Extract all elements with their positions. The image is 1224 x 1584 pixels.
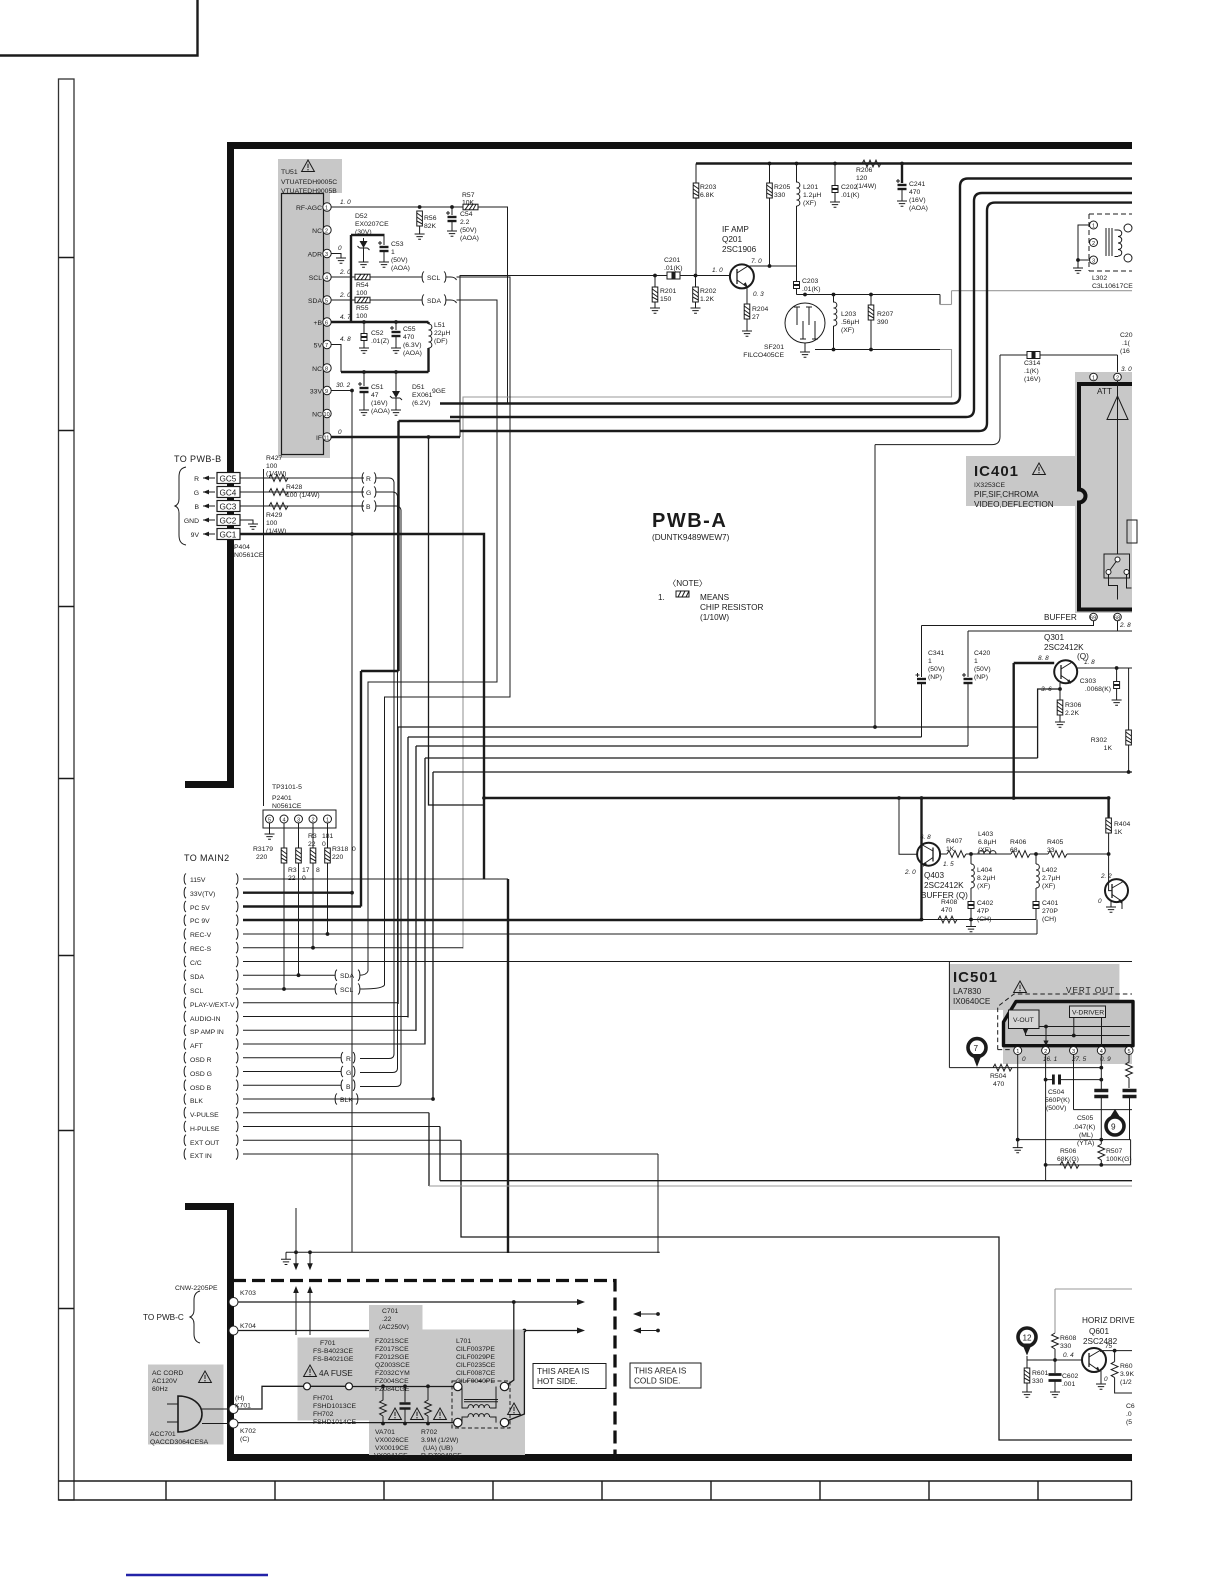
svg-text:IX0640CE: IX0640CE [953, 997, 991, 1006]
svg-text:OSD G: OSD G [190, 1071, 212, 1078]
barrier crossing arrows up [295, 1291, 297, 1335]
svg-text:(5: (5 [1126, 1419, 1132, 1426]
svg-text:9GE: 9GE [432, 388, 446, 395]
svg-text:R504: R504 [990, 1073, 1006, 1080]
midfield wire M4 [425, 758, 1038, 1045]
Q404 collector stub [1121, 901, 1123, 909]
svg-text:GC4: GC4 [220, 489, 237, 498]
connector GC2 [217, 515, 240, 526]
svg-text:1.2K: 1.2K [700, 296, 714, 303]
resistor R608 [1052, 1333, 1059, 1349]
svg-text:470: 470 [993, 1081, 1005, 1088]
svg-text:GC2: GC2 [220, 517, 237, 526]
svg-text:1. 0: 1. 0 [712, 267, 723, 274]
svg-text:R427: R427 [266, 455, 282, 462]
Q403 ground rail [922, 919, 1037, 921]
svg-text:V-PULSE: V-PULSE [190, 1112, 219, 1119]
svg-text:4: 4 [283, 818, 286, 824]
P2401 pin 4 [280, 815, 288, 823]
svg-text:R407: R407 [946, 838, 962, 845]
svg-text:270P: 270P [1042, 908, 1058, 915]
svg-text:220: 220 [332, 854, 344, 861]
svg-text:33V: 33V [310, 389, 323, 396]
resistor R3178 [298, 823, 300, 848]
svg-text:TO PWB-C: TO PWB-C [143, 1313, 184, 1322]
svg-text:2: 2 [325, 229, 328, 235]
warning VA701 [389, 1408, 402, 1420]
svg-text:4. 8: 4. 8 [340, 336, 351, 343]
svg-text:(XF): (XF) [1042, 883, 1055, 890]
svg-text:L201: L201 [803, 184, 818, 191]
IC401 pin 69 [1090, 613, 1098, 621]
transistor Q301 [1054, 660, 1077, 683]
svg-text:VIDEO,DEFLECTION: VIDEO,DEFLECTION [974, 500, 1054, 509]
svg-text:7: 7 [974, 1044, 979, 1053]
Q301 collector wire [1077, 667, 1132, 669]
resistor R702 [427, 1386, 429, 1400]
ruler tick marks [59, 258, 75, 1309]
svg-text:8: 8 [316, 867, 320, 874]
SDA jog wire from tuner [368, 300, 497, 971]
svg-text:2.7µH: 2.7µH [1042, 875, 1060, 882]
svg-text:75: 75 [1105, 1343, 1113, 1350]
capacitor C420 [967, 631, 969, 677]
deflection pulse line black [440, 1180, 1132, 1182]
AC cord gray block [148, 1365, 224, 1445]
svg-text:150: 150 [660, 296, 672, 303]
connector pin K702 [229, 1419, 238, 1428]
svg-text:R205: R205 [774, 184, 790, 191]
capacitor C55 [394, 320, 398, 324]
IC501 ground [1017, 1140, 1019, 1148]
svg-text:3: 3 [297, 818, 300, 824]
R504 rail [949, 1067, 1101, 1069]
tuner pin 10 NC [323, 409, 331, 417]
svg-text:HORIZ DRIVE: HORIZ DRIVE [1082, 1316, 1135, 1325]
svg-text:R3: R3 [288, 867, 297, 874]
svg-text:(NP): (NP) [974, 674, 988, 681]
svg-text:(C): (C) [240, 1436, 249, 1443]
north stub [295, 1208, 297, 1252]
svg-text:2. 0: 2. 0 [904, 869, 916, 876]
junction M1-SIF [873, 725, 877, 729]
transistor Q201 [730, 264, 754, 288]
wire buffer out right [1118, 630, 1133, 632]
resistor R3179 [283, 823, 285, 848]
svg-text:1: 1 [974, 658, 978, 665]
svg-text:G: G [346, 1070, 351, 1077]
svg-text:VX0019CE: VX0019CE [375, 1445, 409, 1452]
emitter branch to M4 [1038, 689, 1060, 758]
plug wires [202, 1409, 229, 1424]
wire 5V pin7 [331, 345, 341, 373]
svg-text:R57: R57 [462, 192, 475, 199]
wire EXT IN drop [657, 1154, 659, 1253]
svg-text:R207: R207 [877, 311, 893, 318]
svg-text:3: 3 [325, 252, 328, 258]
svg-text:1. 5: 1. 5 [943, 861, 954, 868]
svg-text:R306: R306 [1065, 702, 1081, 709]
midfield wire M3 [416, 746, 968, 1031]
connector brace [175, 467, 186, 545]
resistor R302 [1128, 668, 1130, 730]
supply rail top [696, 162, 1132, 164]
midfield wire M1 [398, 727, 1038, 1004]
capacitor C341 [921, 626, 923, 678]
svg-text:L403: L403 [978, 831, 993, 838]
svg-text:SF201: SF201 [764, 344, 784, 351]
Q403 emitter wire [940, 853, 947, 855]
svg-text:2.2: 2.2 [460, 219, 470, 226]
tuner pin 11 IF [323, 433, 331, 441]
thick border bottom [227, 1454, 1132, 1461]
warning T701 [508, 1403, 521, 1415]
svg-text:.01(Z): .01(Z) [371, 338, 389, 345]
Q601 base rail [1027, 1356, 1082, 1360]
resistor R3181 [327, 823, 329, 848]
svg-text:5: 5 [325, 299, 328, 305]
svg-text:NC: NC [312, 228, 322, 235]
svg-text:C602: C602 [1062, 1373, 1078, 1380]
buffer out rail [484, 797, 1108, 799]
svg-text:11: 11 [324, 436, 330, 442]
svg-text:6.8K: 6.8K [700, 192, 714, 199]
wire V-PULSE drop [428, 1113, 430, 1186]
svg-text:.1(: .1( [1122, 340, 1131, 347]
series node 2 [1030, 853, 1048, 855]
svg-text:2: 2 [1116, 376, 1119, 382]
svg-text:(1/4W): (1/4W) [856, 183, 876, 190]
wire ADR pin3 to ground [331, 254, 341, 259]
svg-text:(30V): (30V) [355, 229, 372, 236]
svg-text:47: 47 [371, 392, 379, 399]
svg-text:C52: C52 [371, 330, 384, 337]
svg-text:(16V): (16V) [909, 197, 926, 204]
wire GC2 ground [240, 520, 253, 524]
ground rail IC501 [1018, 1139, 1131, 1141]
svg-text:R60: R60 [1120, 1363, 1133, 1370]
svg-text:CILF0235CE: CILF0235CE [456, 1362, 496, 1369]
capacitor C51 [362, 370, 366, 374]
svg-text:Q601: Q601 [1089, 1327, 1109, 1336]
IC501 pin 1 [1014, 1047, 1022, 1055]
svg-text:2: 2 [1092, 241, 1095, 247]
svg-text:33: 33 [1047, 847, 1055, 854]
warning triangle TU51 [302, 160, 315, 172]
svg-text:1: 1 [1092, 224, 1095, 230]
L302 pin 1 [1090, 221, 1098, 229]
resistor R205 [768, 162, 772, 166]
transformer T701 dashed box [452, 1381, 510, 1428]
warning C702 [411, 1408, 424, 1420]
isolation dashed line [233, 1281, 615, 1462]
svg-text:GC3: GC3 [220, 503, 237, 512]
IC501 pin 4 [1097, 1047, 1105, 1055]
THIS AREA IS HOT SIDE box [533, 1364, 606, 1389]
svg-text:R608: R608 [1060, 1335, 1076, 1342]
svg-text:N0561CE: N0561CE [272, 803, 302, 810]
wire to IC401 pin2 [1117, 355, 1119, 373]
svg-text:22µH: 22µH [434, 330, 450, 337]
inductor L201 [795, 162, 799, 166]
svg-text:(AOA): (AOA) [909, 205, 928, 212]
inductor L203 [833, 295, 835, 303]
transistor Q403 [917, 843, 940, 866]
svg-text:2: 2 [312, 818, 315, 824]
svg-text:0: 0 [1098, 898, 1102, 905]
svg-text:4: 4 [325, 276, 328, 282]
svg-text:IF: IF [316, 435, 322, 442]
svg-text:2SC2412K: 2SC2412K [1044, 643, 1084, 652]
svg-text:FZ021SCE: FZ021SCE [375, 1338, 409, 1345]
svg-text:PIF,SIF,CHROMA: PIF,SIF,CHROMA [974, 490, 1039, 499]
pin5 right column [1130, 1140, 1132, 1165]
svg-text:R318: R318 [332, 846, 348, 853]
svg-text:R204: R204 [752, 306, 768, 313]
svg-text:FZ017SCE: FZ017SCE [375, 1346, 409, 1353]
connector P404 outline [263, 469, 265, 806]
svg-text:30. 2: 30. 2 [336, 382, 351, 389]
wire 33V pin9 [331, 390, 352, 392]
pin5 resistor [1128, 1055, 1130, 1063]
pin3 column [1073, 1055, 1075, 1110]
svg-text:C701: C701 [382, 1308, 398, 1315]
svg-text:LA7830: LA7830 [953, 987, 982, 996]
svg-text:3: 3 [1092, 259, 1095, 265]
L302 ground wire [1078, 225, 1090, 268]
bus wire B3 [460, 203, 1132, 431]
IC401 body gray [1075, 372, 1132, 613]
pin1 ground column [1017, 1055, 1019, 1140]
svg-text:COLD SIDE.: COLD SIDE. [634, 1377, 680, 1386]
F701 gray block [298, 1338, 372, 1421]
svg-text:AUDIO-IN: AUDIO-IN [190, 1016, 221, 1023]
svg-text:PLAY-V/EXT-V: PLAY-V/EXT-V [190, 1002, 235, 1009]
svg-text:C3L10617CE: C3L10617CE [1092, 283, 1133, 290]
svg-text:(H): (H) [235, 1395, 244, 1402]
svg-text:2SC1906: 2SC1906 [722, 245, 757, 254]
svg-text:B: B [194, 504, 199, 511]
svg-text:CILF0029PE: CILF0029PE [456, 1354, 495, 1361]
Q301 base wire [1014, 662, 1054, 664]
svg-text:100 (1/4W): 100 (1/4W) [286, 492, 320, 499]
svg-text:R: R [366, 476, 371, 483]
svg-text:(16V): (16V) [371, 400, 388, 407]
wire IF pin11 [331, 436, 460, 438]
svg-text:1: 1 [326, 818, 329, 824]
chip resistor note symbol [676, 591, 689, 597]
Q404 base link [1109, 854, 1112, 891]
svg-text:FZ004SCE: FZ004SCE [375, 1378, 409, 1385]
svg-text:R206: R206 [856, 167, 872, 174]
svg-text:BLK: BLK [340, 1097, 353, 1104]
svg-text:0: 0 [338, 429, 342, 436]
svg-text:R408: R408 [941, 899, 957, 906]
svg-text:(AOA): (AOA) [371, 408, 390, 415]
svg-text:Q201: Q201 [722, 235, 742, 244]
connector GC1 [217, 529, 240, 540]
svg-text:3.9K: 3.9K [1120, 1371, 1134, 1378]
resistor R601 [1026, 1360, 1028, 1368]
svg-text:R506: R506 [1060, 1148, 1076, 1155]
K704 cold arrow [656, 1329, 660, 1333]
svg-text:(500V): (500V) [1046, 1105, 1066, 1112]
svg-text:.047(K): .047(K) [1073, 1124, 1095, 1131]
svg-text:VTUATEDH9005B: VTUATEDH9005B [281, 188, 337, 195]
tank rail bottom [815, 349, 940, 351]
svg-text:OSD R: OSD R [190, 1057, 212, 1064]
svg-text:IX3253CE: IX3253CE [974, 482, 1005, 489]
svg-text:C53: C53 [391, 241, 404, 248]
svg-text:69: 69 [1090, 616, 1096, 622]
wire H-PULSE drop [439, 1127, 441, 1181]
svg-text:1. 8: 1. 8 [1084, 659, 1095, 666]
svg-text:(6.3V): (6.3V) [403, 342, 422, 349]
T701 core [464, 1400, 498, 1402]
svg-text:R: R [194, 476, 199, 483]
T701 secondary winding [462, 1414, 496, 1423]
svg-text:330: 330 [1032, 1378, 1044, 1385]
svg-text:PC 9V: PC 9V [190, 918, 210, 925]
L302 pin 3 [1090, 256, 1098, 264]
zener diode D52 [358, 238, 370, 252]
tuner pin 1 RF-AGC [323, 203, 331, 211]
capacitor C402 [968, 898, 974, 912]
svg-text:5V: 5V [314, 343, 323, 350]
IC401 thick outline [1079, 384, 1132, 610]
IC501 pin 2 [1042, 1047, 1050, 1055]
svg-text:(AOA): (AOA) [460, 235, 479, 242]
svg-text:AFT: AFT [190, 1043, 203, 1050]
svg-text:N0561CE: N0561CE [234, 552, 264, 559]
svg-text:C420: C420 [974, 650, 990, 657]
IC501 internal wires [1039, 1026, 1130, 1028]
svg-text:P2401: P2401 [272, 795, 292, 802]
svg-text:(AC250V): (AC250V) [379, 1324, 409, 1331]
svg-text:10: 10 [324, 412, 330, 418]
svg-text:68: 68 [1114, 616, 1120, 622]
thick border left upper [185, 142, 231, 785]
svg-text:SCL: SCL [340, 987, 353, 994]
svg-text:.1(K): .1(K) [1024, 368, 1039, 375]
svg-text:2. 0: 2. 0 [339, 292, 351, 299]
svg-text:22: 22 [308, 841, 316, 848]
svg-text:(YTA): (YTA) [1077, 1140, 1094, 1147]
svg-text:ACC701: ACC701 [150, 1431, 176, 1438]
svg-text:2. 8: 2. 8 [1119, 622, 1131, 629]
svg-text:8.2µH: 8.2µH [977, 875, 995, 882]
svg-text:(50V): (50V) [928, 666, 945, 673]
GC1 9V net [240, 534, 484, 879]
P2401 pin 1 [324, 815, 332, 823]
svg-text:OSD B: OSD B [190, 1085, 212, 1092]
capacitor C54 [450, 205, 454, 209]
zener diode D51 [394, 370, 398, 374]
fuse F701 [238, 1386, 304, 1409]
warning R702 [434, 1408, 447, 1420]
capacitor C314 [1000, 354, 1118, 356]
wire RF-AGC pin1 [331, 207, 507, 404]
svg-text:TO MAIN2: TO MAIN2 [184, 853, 230, 863]
svg-text:FH701: FH701 [313, 1395, 334, 1402]
svg-text:R302: R302 [1091, 737, 1107, 744]
svg-text:SCL: SCL [190, 988, 203, 995]
transistor Q404 [1105, 879, 1128, 902]
midfield wire M5 [433, 772, 1132, 1100]
svg-text:IC501: IC501 [953, 969, 998, 986]
svg-text:ADR: ADR [308, 252, 322, 259]
wire GC3 B [240, 505, 364, 507]
series out wire [1067, 853, 1109, 855]
svg-text:.001: .001 [1062, 1381, 1075, 1388]
svg-text:R405: R405 [1047, 839, 1063, 846]
switch lever [1110, 561, 1117, 570]
svg-text:2: 2 [1044, 1049, 1047, 1055]
thick border left lower L [185, 1207, 231, 1462]
svg-text:V-DRIVER: V-DRIVER [1072, 1010, 1104, 1017]
svg-text:R507: R507 [1106, 1148, 1122, 1155]
svg-text:100: 100 [356, 290, 368, 297]
capacitor C401 [1033, 898, 1039, 912]
capacitor C303 [1116, 668, 1118, 678]
resistor R202 [694, 274, 698, 278]
svg-text:TO PWB-B: TO PWB-B [174, 454, 222, 464]
svg-text:C201: C201 [664, 257, 680, 264]
svg-text:.01(K): .01(K) [802, 286, 821, 293]
barrier rail [286, 1251, 660, 1253]
wire 33V drop [351, 391, 353, 1253]
svg-text:R202: R202 [700, 288, 716, 295]
PWB-C brace [190, 1291, 200, 1343]
svg-text:F701: F701 [320, 1340, 336, 1347]
svg-text:FS-B4021GE: FS-B4021GE [313, 1356, 354, 1363]
tuner pin 3 ADR [323, 249, 331, 257]
svg-text:(XF): (XF) [841, 327, 854, 334]
svg-text:SDA: SDA [340, 973, 354, 980]
P2401 pin 5 [266, 815, 274, 823]
svg-text:C203: C203 [802, 278, 818, 285]
K703 return riser [508, 1302, 514, 1385]
AC plug symbol [178, 1396, 202, 1432]
tuner pin 9 33V [323, 386, 331, 394]
svg-text:PC 5V: PC 5V [190, 905, 210, 912]
svg-text:2.2K: 2.2K [1065, 710, 1079, 717]
svg-text:EXT OUT: EXT OUT [190, 1140, 219, 1147]
svg-text:C241: C241 [909, 181, 925, 188]
svg-text:1K: 1K [1114, 829, 1123, 836]
svg-text:(1/10W): (1/10W) [700, 613, 729, 622]
svg-text:390: 390 [877, 319, 889, 326]
svg-text:9V: 9V [191, 532, 200, 539]
svg-text:R-DZ0049CE: R-DZ0049CE [421, 1453, 462, 1460]
transistor Q601 [1082, 1348, 1106, 1372]
barrier rail ground [285, 1252, 287, 1259]
svg-text:6: 6 [325, 321, 328, 327]
svg-text:BLK: BLK [190, 1098, 203, 1105]
svg-text:SDA: SDA [190, 974, 204, 981]
R506 rail [1046, 1164, 1131, 1166]
P2401 pin 2 [309, 815, 317, 823]
svg-text:.0: .0 [1126, 1411, 1132, 1418]
thick jog wire [361, 421, 460, 907]
capacitor C53 [383, 235, 385, 245]
tuner pin 6 +B [323, 318, 331, 326]
ground rail earth [970, 920, 972, 927]
svg-text:SDA: SDA [427, 298, 441, 305]
IF trap gray wire [463, 350, 952, 949]
warning triangle F701 [304, 1365, 317, 1377]
resistor R507 [1098, 1144, 1105, 1160]
